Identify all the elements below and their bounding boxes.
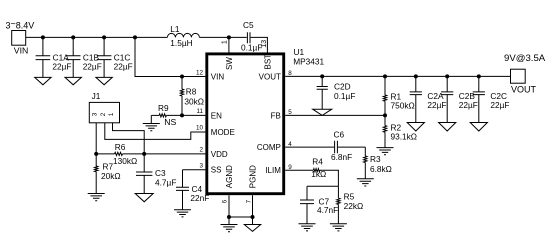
- svg-text:R4: R4: [312, 156, 323, 166]
- svg-text:22µF: 22µF: [490, 100, 509, 110]
- svg-text:C5: C5: [243, 20, 254, 30]
- svg-text:R6: R6: [115, 142, 126, 152]
- svg-text:BST: BST: [263, 54, 272, 70]
- svg-text:4.7nF: 4.7nF: [317, 205, 338, 215]
- svg-text:22µF: 22µF: [83, 62, 102, 72]
- svg-text:6.8nF: 6.8nF: [331, 152, 352, 162]
- svg-text:22kΩ: 22kΩ: [344, 201, 364, 211]
- svg-text:VIN: VIN: [211, 72, 225, 81]
- svg-text:VIN: VIN: [14, 46, 28, 56]
- svg-text:R9: R9: [158, 103, 169, 113]
- svg-text:COMP: COMP: [257, 143, 281, 152]
- svg-text:3: 3: [199, 163, 203, 170]
- svg-text:22µF: 22µF: [459, 100, 478, 110]
- svg-text:SS: SS: [211, 166, 222, 175]
- svg-text:4: 4: [288, 141, 292, 148]
- svg-text:750kΩ: 750kΩ: [391, 101, 415, 111]
- svg-text:J1: J1: [92, 91, 101, 101]
- svg-text:C6: C6: [334, 130, 345, 140]
- svg-text:1: 1: [222, 40, 229, 44]
- svg-text:FB: FB: [271, 111, 281, 120]
- svg-text:1kΩ: 1kΩ: [311, 169, 326, 179]
- svg-text:MP3431: MP3431: [293, 56, 324, 66]
- svg-text:0.1µF: 0.1µF: [241, 42, 262, 52]
- svg-text:L1: L1: [170, 24, 180, 34]
- svg-text:C2D: C2D: [334, 82, 351, 92]
- svg-text:4.7µF: 4.7µF: [155, 178, 176, 188]
- svg-text:VOUT: VOUT: [259, 72, 281, 81]
- svg-text:R8: R8: [186, 87, 197, 97]
- svg-text:130kΩ: 130kΩ: [113, 156, 137, 166]
- svg-text:20kΩ: 20kΩ: [101, 171, 121, 181]
- svg-text:11: 11: [196, 108, 203, 115]
- svg-text:22µF: 22µF: [114, 62, 133, 72]
- svg-text:NS: NS: [164, 117, 176, 127]
- svg-text:10: 10: [196, 125, 204, 132]
- svg-text:30kΩ: 30kΩ: [184, 97, 204, 107]
- svg-text:7: 7: [245, 199, 252, 203]
- svg-text:9: 9: [288, 164, 292, 171]
- svg-text:3: 3: [92, 112, 99, 116]
- svg-text:C3: C3: [155, 168, 166, 178]
- svg-text:R3: R3: [370, 154, 381, 164]
- svg-text:SW: SW: [225, 57, 234, 70]
- svg-text:22nF: 22nF: [190, 193, 209, 203]
- svg-text:PGND: PGND: [248, 165, 257, 188]
- svg-text:2: 2: [199, 147, 203, 154]
- svg-text:ILIM: ILIM: [265, 166, 281, 175]
- svg-text:12: 12: [196, 69, 204, 76]
- svg-text:VDD: VDD: [211, 150, 228, 159]
- svg-text:0.1µF: 0.1µF: [334, 91, 355, 101]
- svg-text:5: 5: [288, 109, 292, 116]
- svg-text:22µF: 22µF: [52, 62, 71, 72]
- svg-text:6.8kΩ: 6.8kΩ: [370, 164, 392, 174]
- svg-text:22µF: 22µF: [427, 100, 446, 110]
- svg-text:AGND: AGND: [225, 165, 234, 188]
- svg-text:93.1kΩ: 93.1kΩ: [391, 132, 418, 142]
- svg-text:9V@3.5A: 9V@3.5A: [504, 53, 546, 64]
- svg-text:1.5µH: 1.5µH: [170, 38, 192, 48]
- svg-text:1: 1: [108, 112, 115, 116]
- svg-text:3~8.4V: 3~8.4V: [6, 18, 35, 30]
- svg-text:EN: EN: [211, 111, 222, 120]
- svg-text:R7: R7: [103, 162, 114, 172]
- svg-text:MODE: MODE: [211, 128, 235, 137]
- svg-text:VOUT: VOUT: [511, 84, 537, 94]
- svg-text:13: 13: [261, 40, 268, 48]
- svg-text:2: 2: [100, 112, 107, 116]
- svg-text:6: 6: [222, 199, 229, 203]
- svg-text:8: 8: [288, 70, 292, 77]
